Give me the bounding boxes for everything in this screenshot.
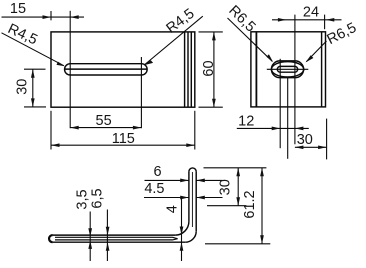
svg-text:60: 60 — [201, 60, 217, 76]
side view outline — [251, 32, 326, 107]
dimension 6,5 arrow up — [106, 242, 110, 251]
dimension 3,5 arrow down — [88, 228, 92, 237]
svg-text:4: 4 — [165, 205, 181, 213]
dimension 4 line — [181, 198, 183, 261]
top view bar slot edge bottom — [55, 239, 178, 240]
dimension 3,5 line — [89, 212, 91, 262]
svg-text:12: 12 — [238, 114, 254, 130]
svg-text:3,5: 3,5 — [74, 189, 90, 209]
dimension 6 arrow right — [196, 179, 205, 183]
extension line 24 right — [324, 15, 326, 30]
dimension 6,5 line — [106, 210, 108, 262]
top view bar outer bottom line — [53, 241, 186, 243]
extension line 30 side right — [326, 119, 328, 160]
dimension 30 left arrow bottom — [31, 98, 35, 107]
dimension 30 top view arrow top — [236, 168, 240, 177]
dimension 3,5 arrow up — [88, 240, 92, 249]
leader R6,5 left — [228, 18, 273, 61]
bend line side view right — [321, 32, 323, 107]
leader R4,5 left arrowhead — [57, 62, 65, 67]
dimension 24 arrow right — [326, 18, 335, 22]
dimension 115 arrow left — [51, 143, 60, 147]
svg-text:6,5: 6,5 — [90, 188, 106, 208]
svg-text:15: 15 — [10, 1, 26, 17]
dimension 4.5 arrow right — [196, 196, 205, 200]
dimension 4 arrow down — [180, 227, 184, 236]
svg-text:R6,5: R6,5 — [325, 20, 360, 48]
svg-text:55: 55 — [96, 113, 112, 129]
dimension 55 line — [70, 127, 141, 129]
top view bar outer top line — [53, 234, 176, 236]
dimension 55 arrow left — [70, 126, 79, 130]
dimension 6,5 arrow down — [106, 227, 110, 236]
extension line 115 left — [50, 111, 52, 150]
dimension 4.5 line left part — [144, 197, 189, 199]
dimension 60 line — [213, 32, 215, 107]
slot side view outer obround — [271, 61, 303, 78]
dimension 6 line left part — [145, 179, 189, 181]
top view bar left end cap — [49, 235, 53, 242]
svg-text:30: 30 — [218, 179, 234, 195]
dimension 12 arrow right — [295, 127, 304, 131]
dimension 4.5 arrow left — [180, 196, 189, 200]
slot side view horizontal centerline — [267, 68, 309, 70]
dimension 30 left line — [32, 69, 34, 107]
extension line 30 top view bottom — [207, 205, 246, 207]
dimension 61.2 line — [261, 168, 263, 244]
extension line slot left cap center — [69, 11, 71, 128]
dimension 30 top view arrow bottom — [236, 197, 240, 206]
dimension 24 line — [272, 19, 342, 21]
extension line 60 bottom — [199, 106, 223, 108]
slot side view inner obround — [277, 66, 297, 72]
leader R4,5 right — [145, 16, 203, 64]
dimension 15 line — [2, 16, 85, 18]
dimension 4.5 line right part — [196, 197, 222, 199]
slot front view outer obround — [65, 64, 148, 75]
leader R4,5 right arrowhead — [144, 60, 153, 65]
dimension 60 arrow bottom — [212, 99, 216, 108]
dimension 30 side line — [295, 146, 327, 148]
svg-text:R6,5: R6,5 — [225, 3, 258, 36]
leader R4,5 left — [2, 33, 64, 66]
leader R6,5 right arrowhead — [306, 55, 314, 62]
extension line slot right cap — [294, 15, 296, 145]
dimension 15 arrow right — [70, 15, 79, 19]
dimension 61.2 arrow bottom — [260, 235, 264, 244]
leader R6,5 right — [306, 41, 326, 62]
top view bend arc outer — [185, 231, 196, 242]
top view bend arc inner — [175, 221, 189, 235]
extension line 60 top — [199, 31, 223, 33]
bend line front view 2 — [187, 32, 189, 107]
top view leg right face — [195, 172, 197, 232]
extension line 15 left — [50, 11, 52, 20]
svg-text:24: 24 — [303, 4, 319, 20]
dimension 30 side arrow left — [295, 145, 304, 149]
dimension 12 arrow left — [272, 127, 281, 131]
dimension 6 line right part — [196, 179, 222, 181]
dimension 24 arrow left — [278, 18, 287, 22]
extension line 61.2 bottom — [205, 243, 270, 245]
extension line top of leg — [204, 167, 267, 169]
dimension 6 arrow left — [180, 179, 189, 183]
extension line slot left cap — [279, 59, 281, 148]
extension line 30 left bottom — [24, 106, 46, 108]
slot front view middle line — [65, 68, 147, 70]
dimension 4 arrow up — [180, 242, 184, 251]
extension line 115 right — [194, 111, 196, 150]
dimension 115 line — [51, 144, 195, 146]
svg-text:115: 115 — [112, 131, 135, 147]
dimension 12 line — [237, 127, 309, 129]
bend line front view 1 — [184, 32, 186, 107]
extension line 30 left top — [24, 68, 46, 70]
leader R6,5 left arrowhead — [266, 54, 273, 62]
slot side view outer ellipse — [271, 62, 303, 77]
svg-text:6: 6 — [153, 164, 161, 180]
top view leg left face — [188, 172, 190, 222]
extension line slot right cap center — [140, 57, 142, 128]
dimension 30 top view line — [237, 168, 239, 206]
svg-text:61.2: 61.2 — [242, 190, 258, 218]
dimension 60 arrow top — [212, 32, 216, 41]
svg-text:4.5: 4.5 — [144, 181, 164, 197]
dimension 15 arrow left — [43, 15, 52, 19]
top view leg top cap — [189, 168, 196, 172]
top view leg middle line — [191, 172, 193, 227]
dimension 115 arrow right — [186, 143, 195, 147]
front view outline — [51, 32, 195, 107]
dimension 61.2 arrow top — [260, 168, 264, 177]
extension line slot vertical centerline — [287, 78, 289, 159]
dimension 30 side arrow right — [318, 145, 327, 149]
svg-text:30: 30 — [15, 79, 31, 95]
svg-text:30: 30 — [297, 132, 313, 148]
dimension 30 left arrow top — [31, 69, 35, 78]
bend line front view 3 — [190, 32, 192, 107]
bend line side view left — [255, 32, 257, 107]
top view bar slot edge top — [55, 237, 178, 238]
dimension 55 arrow right — [133, 126, 142, 130]
